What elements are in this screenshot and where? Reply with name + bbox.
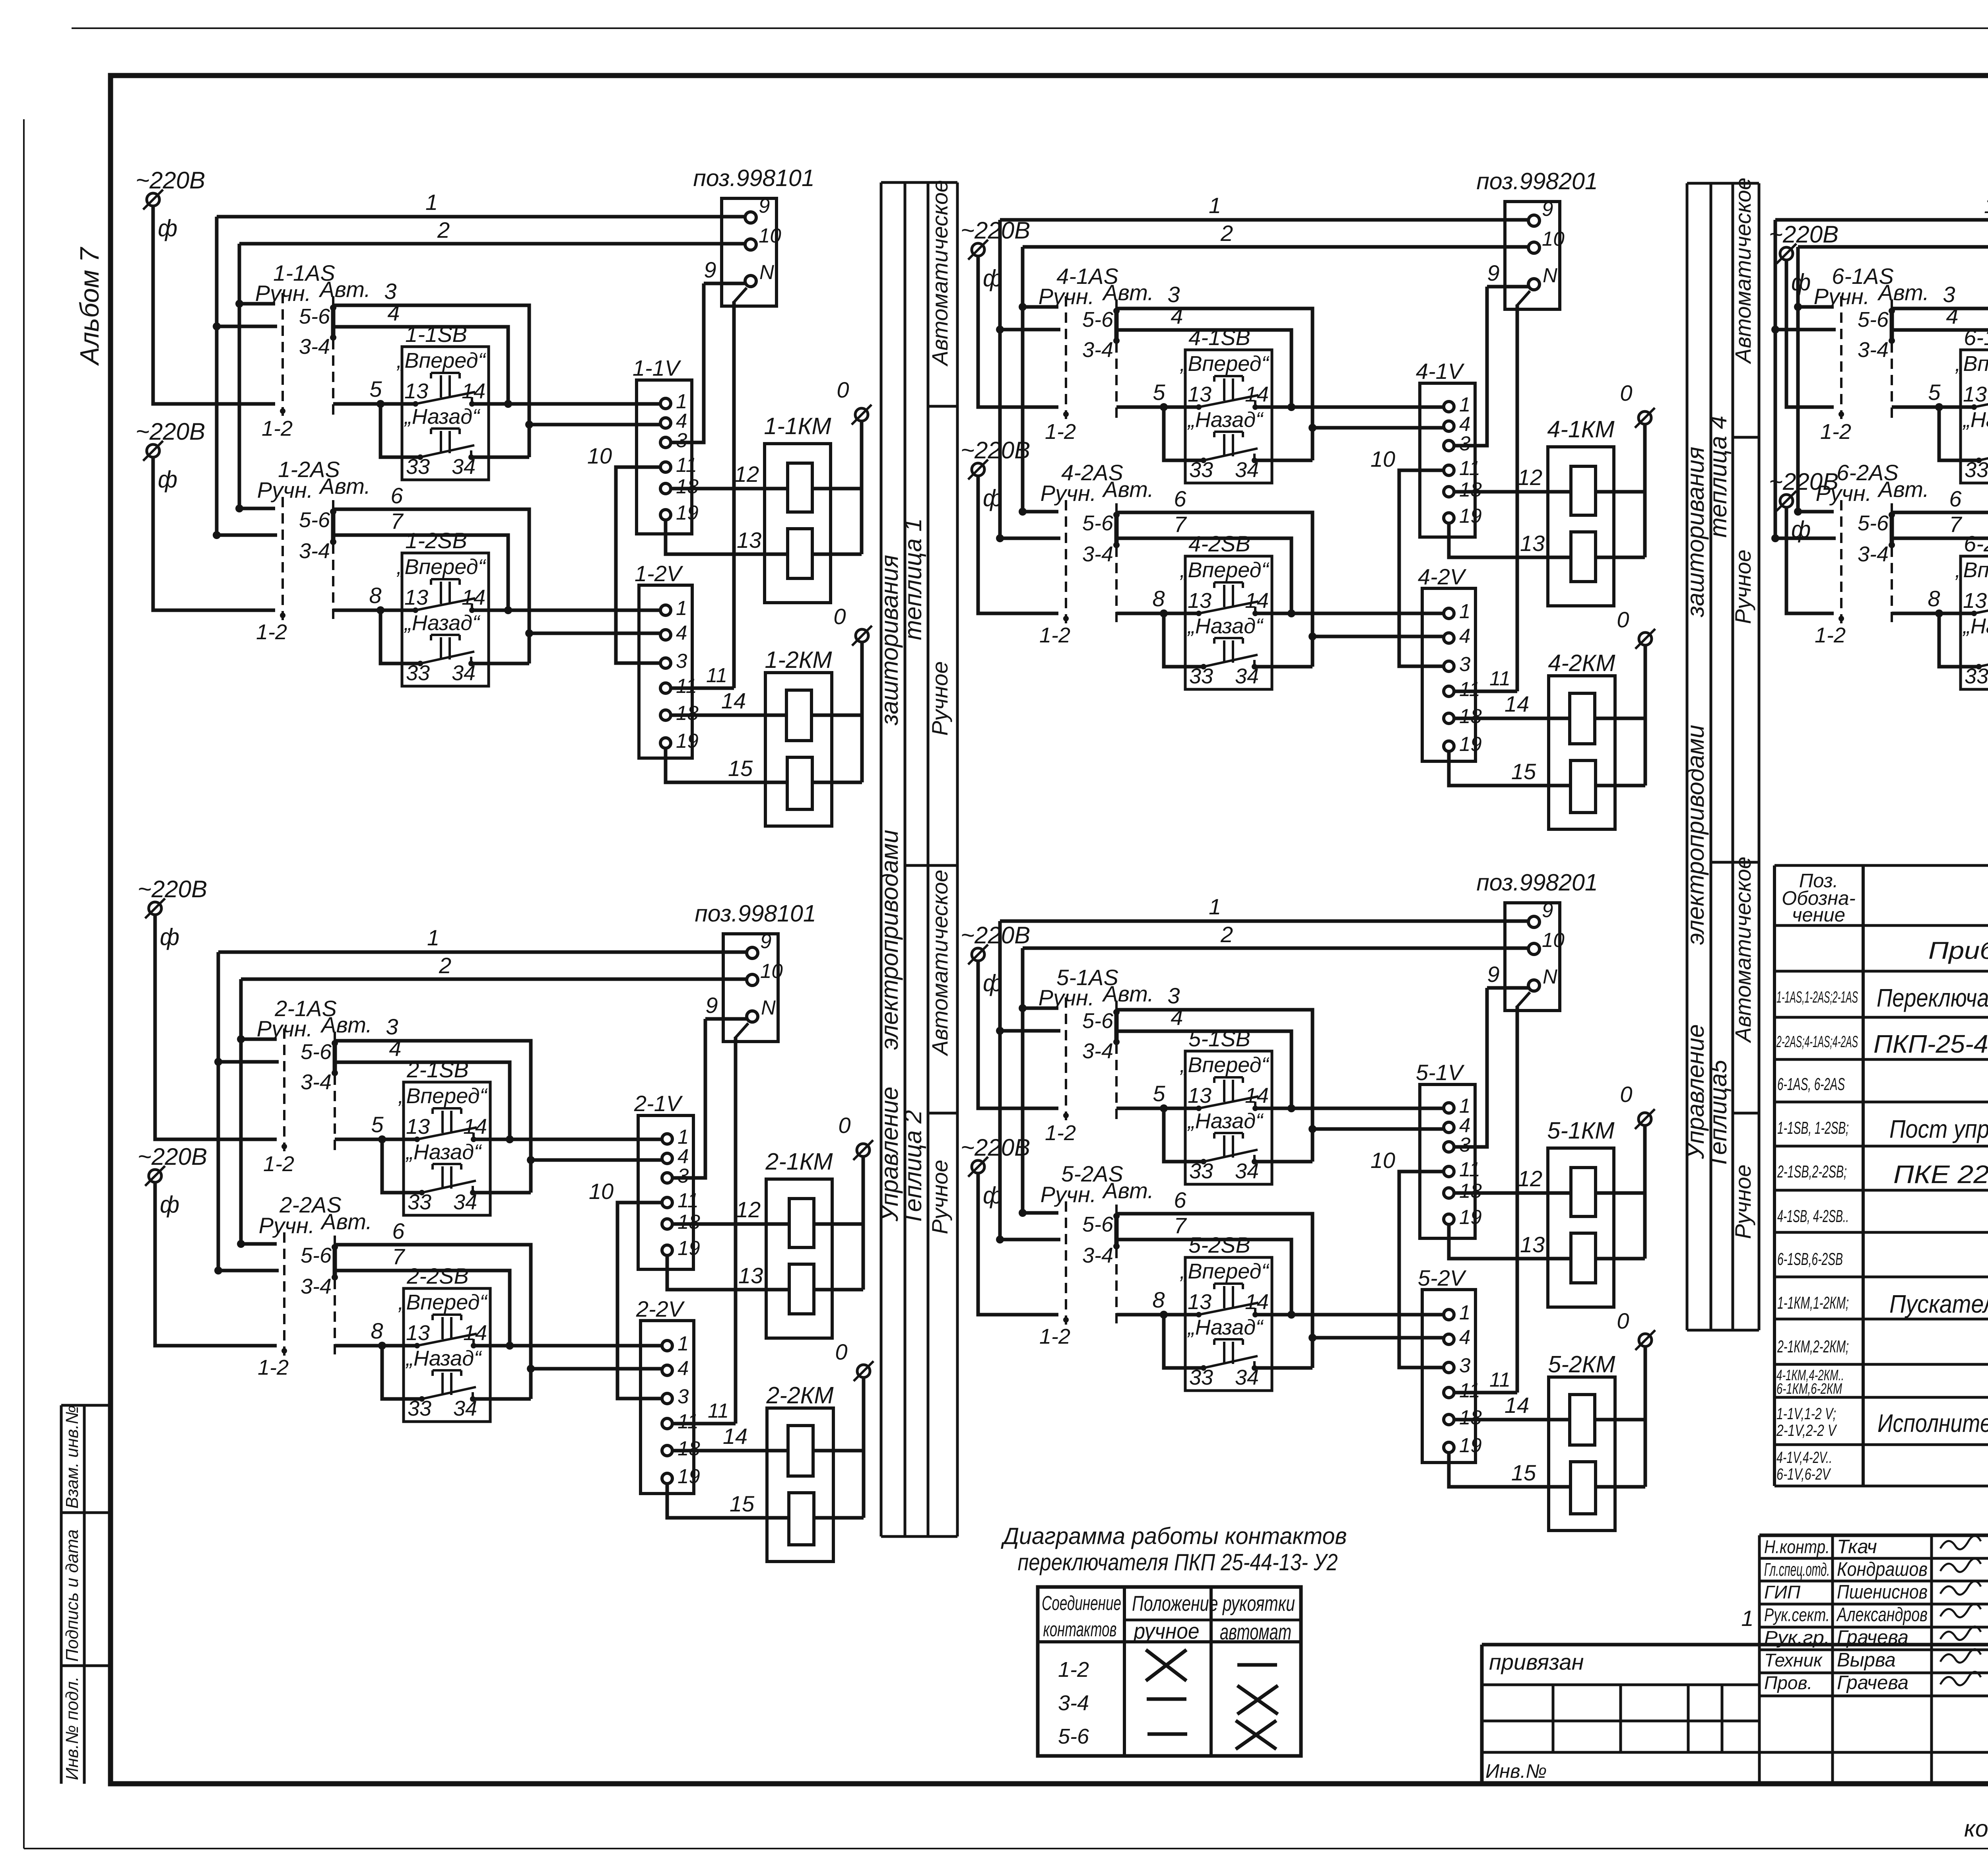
svg-text:Авт.: Авт. bbox=[1877, 280, 1929, 305]
wire 15 (block 4) bbox=[1449, 751, 1571, 786]
terminal 9 (block 5) bbox=[1528, 916, 1540, 927]
wire to 33 contact upper (block 4) bbox=[1164, 407, 1204, 460]
magnetic contactor 2-1КМ bbox=[765, 1148, 863, 1338]
svg-text:1: 1 bbox=[678, 1332, 689, 1355]
wire 10 (block 5) bbox=[1399, 1172, 1444, 1368]
wire 2 (block 1) bbox=[239, 242, 745, 246]
svg-text:5-2V: 5-2V bbox=[1418, 1265, 1467, 1290]
svg-text:Положение рукоятки: Положение рукоятки bbox=[1132, 1592, 1295, 1616]
svg-text:ф: ф bbox=[160, 1191, 179, 1218]
svg-text:Авт.: Авт. bbox=[1102, 477, 1154, 502]
banner strip greenhouses 1 and 2 bbox=[876, 180, 957, 1536]
svg-text:1-1SB: 1-1SB bbox=[405, 322, 467, 347]
svg-text:10: 10 bbox=[1542, 929, 1565, 951]
wire 4 (block 5) bbox=[1000, 1029, 1060, 1033]
wire row B upper (block 4) bbox=[1312, 426, 1444, 430]
svg-text:4: 4 bbox=[678, 1357, 689, 1379]
svg-text:8: 8 bbox=[369, 583, 381, 608]
svg-text:Ручн.: Ручн. bbox=[1041, 481, 1097, 506]
wire 13 (block 2) bbox=[667, 1255, 789, 1290]
svg-text:„Назад“: „Назад“ bbox=[1187, 1315, 1264, 1339]
svg-text:1-1V: 1-1V bbox=[633, 355, 681, 380]
svg-text:11: 11 bbox=[676, 675, 697, 697]
wire from 34 contact lower (block 4) bbox=[1254, 665, 1312, 669]
svg-text:Инв.№: Инв.№ bbox=[1485, 1761, 1547, 1782]
packet switch 2-2AS bbox=[258, 1192, 372, 1379]
svg-text:2-2КМ: 2-2КМ bbox=[766, 1382, 834, 1408]
svg-text:13: 13 bbox=[1188, 382, 1211, 406]
svg-text:Ручн.: Ручн. bbox=[257, 477, 313, 502]
wire 3 (block 2) bbox=[335, 1041, 531, 1193]
svg-text:12: 12 bbox=[1518, 1166, 1542, 1191]
svg-text:7: 7 bbox=[392, 1244, 405, 1269]
banner strip greenhouses 4 and 5 bbox=[1682, 178, 1759, 1330]
svg-text:Гл.спец.отд.: Гл.спец.отд. bbox=[1764, 1559, 1830, 1580]
svg-text:6-1КМ,6-2КМ: 6-1КМ,6-2КМ bbox=[1776, 1381, 1842, 1397]
svg-text:3-4: 3-4 bbox=[299, 539, 330, 563]
svg-text:18: 18 bbox=[1459, 478, 1482, 501]
wire 14 (block 1) bbox=[670, 714, 786, 717]
svg-text:Исполнительный механизм: Исполнительный механизм bbox=[1877, 1409, 1988, 1437]
svg-text:18: 18 bbox=[676, 702, 699, 724]
svg-text:N: N bbox=[761, 996, 776, 1019]
push-button station 4-1SB bbox=[1180, 325, 1272, 483]
svg-text:9: 9 bbox=[759, 194, 770, 217]
magnetic contactor 4-1КМ bbox=[1547, 416, 1645, 606]
magnetic contactor 4-2КМ bbox=[1548, 645, 1645, 829]
svg-text:5-6: 5-6 bbox=[1082, 511, 1114, 535]
svg-text:Грачева: Грачева bbox=[1837, 1672, 1908, 1694]
svg-text:0: 0 bbox=[1617, 607, 1629, 632]
circuit block greenhouse 4 bbox=[961, 168, 1655, 829]
svg-text:0: 0 bbox=[1620, 1082, 1632, 1107]
wire from 34 contact upper (block 1) bbox=[471, 456, 529, 459]
magnetic contactor 2-2КМ bbox=[766, 1377, 864, 1562]
svg-text:5-6: 5-6 bbox=[1858, 511, 1889, 535]
svg-text:6: 6 bbox=[1174, 1187, 1186, 1212]
wire 1 (block 6) bbox=[1775, 218, 1988, 222]
privyazan box bbox=[1482, 1685, 1759, 1752]
terminal 9 (block 2) bbox=[747, 947, 758, 958]
svg-text:„Назад“: „Назад“ bbox=[1963, 408, 1988, 432]
svg-text:10: 10 bbox=[1371, 446, 1395, 471]
wire 7 (block 5) bbox=[1000, 1238, 1060, 1242]
svg-text:13: 13 bbox=[1188, 1290, 1211, 1314]
wire 2 (block 5) bbox=[1023, 947, 1528, 950]
svg-text:Теплица5: Теплица5 bbox=[1705, 1059, 1732, 1169]
svg-text:1-1AS,1-2AS;2-1AS: 1-1AS,1-2AS;2-1AS bbox=[1776, 988, 1858, 1006]
svg-text:3: 3 bbox=[1459, 653, 1470, 675]
wire phase upper drop (block 5) bbox=[978, 960, 1058, 1108]
wire phase lower drop (block 6) bbox=[1786, 507, 1834, 613]
svg-text:электроприводами: электроприводами bbox=[1682, 725, 1709, 945]
svg-text:Авт.: Авт. bbox=[318, 277, 371, 302]
svg-text:11: 11 bbox=[678, 1410, 699, 1433]
wire bus from wire 2 (block 6) bbox=[1796, 247, 1800, 512]
packet switch 6-1AS bbox=[1814, 264, 1929, 444]
actuator connector 4-1V bbox=[1416, 359, 1482, 537]
svg-text:13: 13 bbox=[406, 1115, 430, 1139]
svg-text:2: 2 bbox=[1220, 221, 1233, 246]
svg-text:1-2V: 1-2V bbox=[635, 561, 683, 586]
svg-text:1-1V,1-2 V;: 1-1V,1-2 V; bbox=[1776, 1404, 1836, 1423]
wire 12 (block 5) bbox=[1453, 1191, 1571, 1195]
wire phase upper drop (block 2) bbox=[155, 914, 277, 1139]
svg-text:3: 3 bbox=[1943, 282, 1955, 307]
svg-text:ф: ф bbox=[1791, 269, 1811, 295]
wire from 34 contact upper (block 4) bbox=[1254, 459, 1312, 462]
wire N to lower connector (block 4) bbox=[1517, 291, 1530, 305]
svg-text:Переключатель пакетный: Переключатель пакетный bbox=[1877, 984, 1988, 1012]
wire bus from wire 1 (block 1) bbox=[215, 217, 219, 535]
svg-text:1-2КМ: 1-2КМ bbox=[765, 647, 832, 673]
svg-text:1-2: 1-2 bbox=[1820, 420, 1851, 444]
wire to 33 contact lower (block 2) bbox=[382, 1346, 422, 1399]
svg-text:Авт.: Авт. bbox=[1102, 981, 1154, 1006]
svg-text:6: 6 bbox=[392, 1218, 405, 1243]
svg-text:„Вперед“: „Вперед“ bbox=[1180, 558, 1270, 582]
title block main box bbox=[1482, 1535, 1988, 1784]
svg-text:„Вперед“: „Вперед“ bbox=[1955, 352, 1988, 376]
svg-text:Пшениснов: Пшениснов bbox=[1837, 1581, 1928, 1603]
wire 10 (block 2) bbox=[617, 1203, 663, 1399]
terminal N (block 1) bbox=[745, 275, 756, 287]
wire bus from wire 2 (block 4) bbox=[1021, 247, 1025, 512]
wire stub to 6-2AS hand contact bbox=[1798, 510, 1834, 514]
svg-text:4: 4 bbox=[1459, 625, 1470, 647]
svg-text:4-1V: 4-1V bbox=[1416, 359, 1465, 384]
wire to 33 contact lower (block 4) bbox=[1164, 613, 1204, 667]
push-button station 2-2SB bbox=[398, 1263, 490, 1422]
push-button station 1-2SB bbox=[396, 528, 489, 686]
svg-text:Диаграмма работы контактов: Диаграмма работы контактов bbox=[1001, 1523, 1347, 1549]
svg-text:Управление: Управление bbox=[876, 1086, 903, 1222]
svg-text:Авт.: Авт. bbox=[318, 473, 371, 499]
svg-text:Соединение: Соединение bbox=[1042, 1592, 1121, 1614]
svg-text:Альбом 7: Альбом 7 bbox=[75, 246, 105, 366]
svg-text:8: 8 bbox=[1928, 586, 1940, 611]
svg-text:0: 0 bbox=[837, 377, 849, 402]
circuit block greenhouse 5 bbox=[961, 869, 1655, 1531]
wire row A upper (block 2) bbox=[335, 1138, 417, 1141]
svg-text:Ручное: Ручное bbox=[927, 661, 952, 735]
wire 1 (block 4) bbox=[1000, 218, 1528, 222]
svg-text:ПКП-25-44-13-У2 ТУ 16-526.3: ПКП-25-44-13-У2 ТУ 16-526.308-77 bbox=[1873, 1030, 1988, 1058]
svg-text:2-1V,2-2 V: 2-1V,2-2 V bbox=[1776, 1421, 1837, 1439]
wire bus from wire 2 (block 2) bbox=[239, 979, 243, 1245]
svg-text:3-4: 3-4 bbox=[301, 1070, 332, 1094]
wire 1 (block 2) bbox=[218, 951, 746, 954]
wire 7 (block 1) bbox=[217, 533, 277, 537]
svg-text:1-2: 1-2 bbox=[258, 1356, 289, 1379]
svg-text:привязан: привязан bbox=[1489, 1649, 1584, 1674]
wire row A upper (block 5) bbox=[1116, 1107, 1199, 1110]
svg-text:Ткач: Ткач bbox=[1837, 1536, 1877, 1558]
svg-text:19: 19 bbox=[1459, 1206, 1482, 1228]
wire to 33 contact upper (block 1) bbox=[381, 404, 420, 457]
svg-text:4-1SB, 4-2SB..: 4-1SB, 4-2SB.. bbox=[1777, 1207, 1849, 1226]
svg-text:контактов: контактов bbox=[1043, 1618, 1117, 1641]
circuit block greenhouse 6 bbox=[1769, 168, 1988, 829]
wire 15 (block 1) bbox=[666, 747, 787, 782]
terminal 9 (block 1) bbox=[745, 212, 756, 223]
wire 15 (block 2) bbox=[667, 1483, 789, 1518]
wire 12 (block 2) bbox=[672, 1222, 789, 1226]
svg-text:4-1V,4-2V..: 4-1V,4-2V.. bbox=[1776, 1448, 1832, 1467]
wire 9 to terminal 3 (block 1) bbox=[670, 283, 704, 442]
svg-text:~220В: ~220В bbox=[138, 876, 207, 902]
actuator connector 2-2V bbox=[636, 1296, 701, 1494]
svg-text:„Назад“: „Назад“ bbox=[1963, 614, 1988, 638]
wire row B lower (block 5) bbox=[1312, 1336, 1444, 1340]
svg-text:3-4: 3-4 bbox=[1858, 338, 1889, 362]
svg-text:7: 7 bbox=[390, 508, 404, 533]
svg-text:теплица 4: теплица 4 bbox=[1705, 416, 1732, 538]
wire 12 (block 4) bbox=[1453, 490, 1571, 494]
svg-text:0: 0 bbox=[1617, 1308, 1629, 1333]
svg-text:~220В: ~220В bbox=[136, 418, 205, 445]
svg-text:1-2: 1-2 bbox=[256, 620, 287, 644]
wire phase upper drop (block 1) bbox=[153, 206, 275, 404]
wire to 33 contact lower (block 6) bbox=[1939, 613, 1979, 667]
svg-text:0: 0 bbox=[833, 604, 846, 629]
actuator connector 4-2V bbox=[1418, 564, 1482, 761]
wire stub to 5-2AS hand contact bbox=[1023, 1211, 1058, 1215]
wire N to lower connector (block 2) bbox=[736, 1023, 748, 1038]
wire bus from wire 1 (block 5) bbox=[998, 921, 1002, 1240]
svg-text:1: 1 bbox=[676, 597, 687, 619]
svg-text:Автоматическое: Автоматическое bbox=[927, 870, 952, 1057]
wire row A upper (block 1) bbox=[333, 402, 415, 406]
wire from 34 contact lower (block 2) bbox=[473, 1397, 531, 1401]
svg-text:11: 11 bbox=[1459, 457, 1480, 479]
terminal N (block 5) bbox=[1528, 980, 1540, 991]
wire 14 (block 5) bbox=[1453, 1418, 1570, 1422]
svg-text:Пускатель магнитный: Пускатель магнитный bbox=[1889, 1290, 1988, 1318]
wire N to lower connector (block 5) bbox=[1517, 992, 1530, 1007]
svg-text:3: 3 bbox=[1167, 983, 1180, 1008]
svg-text:переключателя ПКП 25-44-13- У2: переключателя ПКП 25-44-13- У2 bbox=[1018, 1549, 1338, 1575]
svg-text:2-1SB,2-2SB;: 2-1SB,2-2SB; bbox=[1777, 1162, 1847, 1181]
svg-text:6: 6 bbox=[1174, 486, 1186, 511]
svg-text:поз.998101: поз.998101 bbox=[693, 165, 814, 191]
svg-text:4-1КМ: 4-1КМ bbox=[1547, 416, 1615, 442]
svg-text:2-1SB: 2-1SB bbox=[406, 1057, 469, 1082]
svg-text:13: 13 bbox=[1188, 1084, 1211, 1108]
svg-text:поз.998201: поз.998201 bbox=[1476, 869, 1598, 896]
wire row A lower (block 1) bbox=[333, 609, 415, 612]
svg-text:6-1SB: 6-1SB bbox=[1964, 325, 1988, 350]
svg-text:„Назад“: „Назад“ bbox=[406, 1346, 482, 1370]
svg-text:8: 8 bbox=[371, 1318, 383, 1343]
terminal 10 (block 4) bbox=[1528, 242, 1540, 253]
svg-text:8: 8 bbox=[1152, 1287, 1165, 1312]
svg-text:„Вперед“: „Вперед“ bbox=[396, 555, 486, 579]
svg-text:8: 8 bbox=[1152, 586, 1165, 611]
svg-text:19: 19 bbox=[676, 729, 699, 752]
svg-text:18: 18 bbox=[678, 1210, 700, 1233]
wire phase lower drop (block 4) bbox=[978, 475, 1058, 613]
svg-text:1: 1 bbox=[1209, 894, 1221, 919]
svg-text:Автоматическое: Автоматическое bbox=[1730, 178, 1755, 365]
svg-text:11: 11 bbox=[706, 664, 727, 687]
wire 6 (block 4) bbox=[1116, 512, 1312, 667]
svg-text:13: 13 bbox=[738, 1263, 763, 1288]
svg-text:19: 19 bbox=[1459, 504, 1482, 527]
wire row A lower (block 6) bbox=[1892, 612, 1974, 615]
svg-text:Вырва: Вырва bbox=[1837, 1649, 1896, 1671]
svg-text:13: 13 bbox=[406, 1321, 430, 1345]
wire 2 (block 2) bbox=[241, 978, 746, 981]
wire from 34 contact upper (block 5) bbox=[1254, 1160, 1312, 1164]
svg-text:ручное: ручное bbox=[1133, 1618, 1200, 1643]
wire phase upper drop (block 4) bbox=[978, 256, 1058, 407]
svg-text:Авт.: Авт. bbox=[1102, 1178, 1154, 1203]
svg-text:10: 10 bbox=[1542, 227, 1565, 250]
svg-text:2: 2 bbox=[437, 217, 450, 242]
svg-text:2: 2 bbox=[1220, 922, 1233, 947]
circuit block greenhouse 1 bbox=[136, 165, 872, 826]
terminal N (block 4) bbox=[1528, 279, 1540, 290]
push-button station 5-2SB bbox=[1180, 1232, 1272, 1391]
svg-text:„Вперед“: „Вперед“ bbox=[1180, 1053, 1270, 1077]
svg-text:„Назад“: „Назад“ bbox=[404, 405, 481, 429]
svg-text:теплица 1: теплица 1 bbox=[899, 518, 926, 640]
svg-text:„Назад“: „Назад“ bbox=[1187, 408, 1264, 432]
svg-text:19: 19 bbox=[678, 1237, 700, 1259]
svg-text:10: 10 bbox=[589, 1179, 613, 1204]
svg-text:ф: ф bbox=[158, 466, 177, 493]
svg-text:19: 19 bbox=[678, 1465, 700, 1488]
terminal 10 (block 1) bbox=[745, 239, 756, 250]
magnetic contactor 5-1КМ bbox=[1547, 1117, 1645, 1307]
svg-text:„Назад“: „Назад“ bbox=[404, 611, 481, 635]
wire phase lower drop (block 2) bbox=[155, 1182, 277, 1346]
svg-text:5-6: 5-6 bbox=[299, 305, 330, 328]
svg-text:9: 9 bbox=[704, 257, 716, 282]
wire row B lower (block 4) bbox=[1312, 635, 1444, 638]
svg-text:5-6: 5-6 bbox=[299, 508, 330, 532]
svg-text:~220В: ~220В bbox=[138, 1143, 207, 1170]
svg-text:1: 1 bbox=[1459, 1301, 1470, 1324]
svg-text:6-2SB: 6-2SB bbox=[1964, 531, 1988, 556]
svg-text:11: 11 bbox=[1489, 1368, 1510, 1391]
svg-text:зашторивания: зашторивания bbox=[876, 555, 903, 726]
components list table bbox=[1774, 865, 1988, 1486]
svg-text:2-1КМ: 2-1КМ bbox=[765, 1148, 833, 1175]
svg-text:3-4: 3-4 bbox=[1082, 338, 1113, 362]
wire 1 (block 5) bbox=[1000, 920, 1528, 923]
svg-text:12: 12 bbox=[1518, 465, 1542, 490]
push-button station 6-1SB bbox=[1955, 325, 1988, 483]
wire row B lower (block 2) bbox=[531, 1367, 663, 1371]
svg-text:Ручн.: Ручн. bbox=[1816, 481, 1872, 506]
push-button station 4-2SB bbox=[1180, 531, 1272, 689]
svg-text:6: 6 bbox=[390, 483, 403, 508]
svg-text:7: 7 bbox=[1949, 512, 1962, 537]
wire row A upper (block 4) bbox=[1116, 405, 1199, 409]
svg-text:Н.контр.: Н.контр. bbox=[1764, 1536, 1830, 1557]
wire row A lower (block 5) bbox=[1116, 1313, 1199, 1317]
wire from 34 contact lower (block 5) bbox=[1254, 1366, 1312, 1370]
push-button station 1-1SB bbox=[396, 322, 489, 480]
svg-text:1-1SB, 1-2SB;: 1-1SB, 1-2SB; bbox=[1777, 1118, 1849, 1138]
svg-text:13: 13 bbox=[1963, 589, 1987, 613]
wire stub to 1-1AS hand contact bbox=[239, 302, 275, 306]
wire phase lower drop (block 5) bbox=[978, 1173, 1058, 1315]
svg-text:3: 3 bbox=[384, 279, 396, 304]
wire N to lower connector (block 1) bbox=[734, 288, 747, 302]
wire 6 (block 2) bbox=[335, 1245, 531, 1399]
svg-text:поз.998201: поз.998201 bbox=[1476, 168, 1598, 194]
svg-text:Ручное: Ручное bbox=[1730, 549, 1755, 624]
svg-text:2-1КМ,2-2КМ;: 2-1КМ,2-2КМ; bbox=[1777, 1337, 1849, 1356]
svg-text:13: 13 bbox=[737, 528, 761, 553]
svg-text:5-6: 5-6 bbox=[1082, 308, 1114, 332]
svg-text:Инв.№ подл.: Инв.№ подл. bbox=[62, 1676, 82, 1780]
magnetic contactor 1-2КМ bbox=[765, 642, 862, 826]
wire 4 (block 1) bbox=[217, 325, 277, 328]
svg-text:чение: чение bbox=[1792, 904, 1845, 926]
svg-text:5-1КМ: 5-1КМ bbox=[1547, 1117, 1615, 1144]
svg-text:11: 11 bbox=[1459, 678, 1480, 700]
svg-text:автомат: автомат bbox=[1220, 1619, 1291, 1644]
svg-text:1-2: 1-2 bbox=[1058, 1658, 1089, 1682]
packet switch 6-2AS bbox=[1815, 460, 1929, 647]
wire stub to 2-1AS hand contact bbox=[241, 1038, 277, 1041]
packet switch 2-1AS bbox=[257, 996, 372, 1176]
svg-text:„Вперед“: „Вперед“ bbox=[1180, 352, 1270, 376]
packet switch 5-2AS bbox=[1039, 1161, 1154, 1348]
svg-text:2: 2 bbox=[439, 953, 451, 978]
wire 13 (block 1) bbox=[666, 519, 788, 554]
svg-text:N: N bbox=[1543, 965, 1557, 988]
svg-text:5: 5 bbox=[1928, 380, 1941, 405]
svg-text:15: 15 bbox=[1511, 1460, 1536, 1485]
push-button station 6-2SB bbox=[1955, 531, 1988, 689]
svg-text:14: 14 bbox=[1505, 1393, 1529, 1418]
svg-text:15: 15 bbox=[1511, 759, 1536, 784]
svg-text:„Вперед“: „Вперед“ bbox=[398, 1290, 488, 1314]
svg-text:2-2SB: 2-2SB bbox=[406, 1263, 469, 1288]
svg-text:Авт.: Авт. bbox=[320, 1012, 372, 1037]
svg-text:18: 18 bbox=[1459, 1179, 1482, 1202]
svg-text:14: 14 bbox=[723, 1424, 747, 1449]
svg-text:3: 3 bbox=[1167, 282, 1180, 307]
svg-text:3: 3 bbox=[678, 1385, 689, 1408]
terminal 10 (block 5) bbox=[1528, 943, 1540, 954]
svg-text:Приборы по месту: Приборы по месту bbox=[1928, 937, 1988, 964]
svg-text:13: 13 bbox=[404, 379, 428, 403]
svg-text:Пост управления кнопочный: Пост управления кнопочный bbox=[1889, 1115, 1988, 1143]
wire 13 (block 5) bbox=[1449, 1224, 1571, 1259]
wire 4 (block 6) bbox=[1775, 328, 1836, 332]
svg-text:2-2AS;4-1AS;4-2AS: 2-2AS;4-1AS;4-2AS bbox=[1776, 1032, 1858, 1051]
svg-text:1-2: 1-2 bbox=[1045, 1121, 1076, 1145]
svg-text:19: 19 bbox=[676, 501, 699, 524]
svg-text:„Назад“: „Назад“ bbox=[1187, 614, 1264, 638]
svg-text:3-4: 3-4 bbox=[299, 335, 330, 359]
svg-text:5-2КМ: 5-2КМ bbox=[1548, 1351, 1615, 1377]
wire 12 (block 1) bbox=[670, 487, 788, 491]
wire row B upper (block 2) bbox=[531, 1158, 663, 1162]
wire to 33 contact lower (block 1) bbox=[381, 610, 420, 663]
svg-text:~220В: ~220В bbox=[136, 167, 205, 194]
svg-text:„Назад“: „Назад“ bbox=[406, 1140, 482, 1164]
svg-text:6: 6 bbox=[1949, 486, 1962, 511]
svg-text:10: 10 bbox=[759, 224, 781, 247]
left margin table Взам/Подпись/Инв bbox=[61, 1405, 112, 1784]
